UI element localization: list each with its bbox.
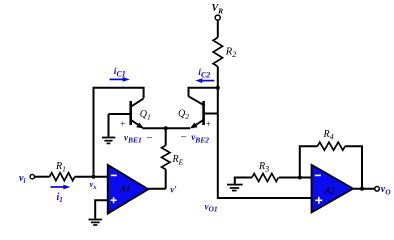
svg-text:–: – — [180, 132, 187, 143]
svg-text:–: – — [146, 132, 153, 143]
junction node A2 inverting input — [298, 176, 302, 180]
junction node Q2 collector — [216, 86, 220, 90]
svg-text:+: + — [120, 119, 125, 129]
wire R4 to output node — [345, 146, 362, 189]
wire vi to R1 — [35, 176, 50, 178]
wire Q1 collector top — [94, 88, 144, 177]
current label iC2 — [195, 68, 214, 83]
svg-text:iC2: iC2 — [198, 68, 210, 80]
terminal VR — [212, 3, 224, 20]
ground A1 — [89, 220, 103, 226]
transistor Q1 — [109, 98, 151, 128]
wire R3 to A2 inverting input — [279, 177, 312, 179]
svg-text:+: + — [206, 119, 211, 129]
wire R1 to A1 inverting input — [75, 176, 108, 178]
wire VR to R2 — [217, 20, 219, 37]
resistor R2 — [213, 38, 236, 67]
wire A2 output — [353, 188, 375, 190]
svg-text:A1: A1 — [119, 184, 130, 194]
wire Q2 collector top — [189, 88, 218, 97]
wire A1 output — [148, 188, 165, 190]
wire R2 to collector node — [217, 67, 219, 88]
wire vO1 — [218, 88, 312, 198]
wire emitter bus — [143, 127, 191, 129]
resistor R3 — [252, 161, 278, 182]
resistor R1 — [50, 161, 75, 181]
terminal vO — [375, 184, 392, 196]
op-amp A2 — [312, 165, 354, 213]
wire E to RE — [165, 128, 167, 145]
current label iC1 — [110, 67, 130, 82]
resistor RE — [162, 145, 184, 169]
resistor R4 — [318, 129, 346, 150]
terminal vi — [19, 173, 35, 185]
ground A2 — [227, 178, 252, 191]
svg-text:A2: A2 — [324, 186, 336, 196]
ground Q1 base — [102, 114, 115, 143]
label vBE2 — [180, 119, 211, 144]
current label i1 — [51, 185, 71, 204]
wire feedback up to R4 — [300, 146, 318, 177]
junction node A2 output — [360, 187, 364, 191]
label vBE1 — [120, 119, 153, 145]
wire RE to v' node — [165, 169, 167, 188]
junction node E — [164, 126, 168, 130]
svg-text:v′: v′ — [170, 184, 177, 194]
wire A1 plus input — [95, 200, 108, 218]
transistor Q2 — [178, 96, 218, 128]
op-amp A1 — [108, 165, 149, 214]
junction node vx — [92, 175, 96, 179]
svg-text:iC1: iC1 — [114, 67, 126, 79]
